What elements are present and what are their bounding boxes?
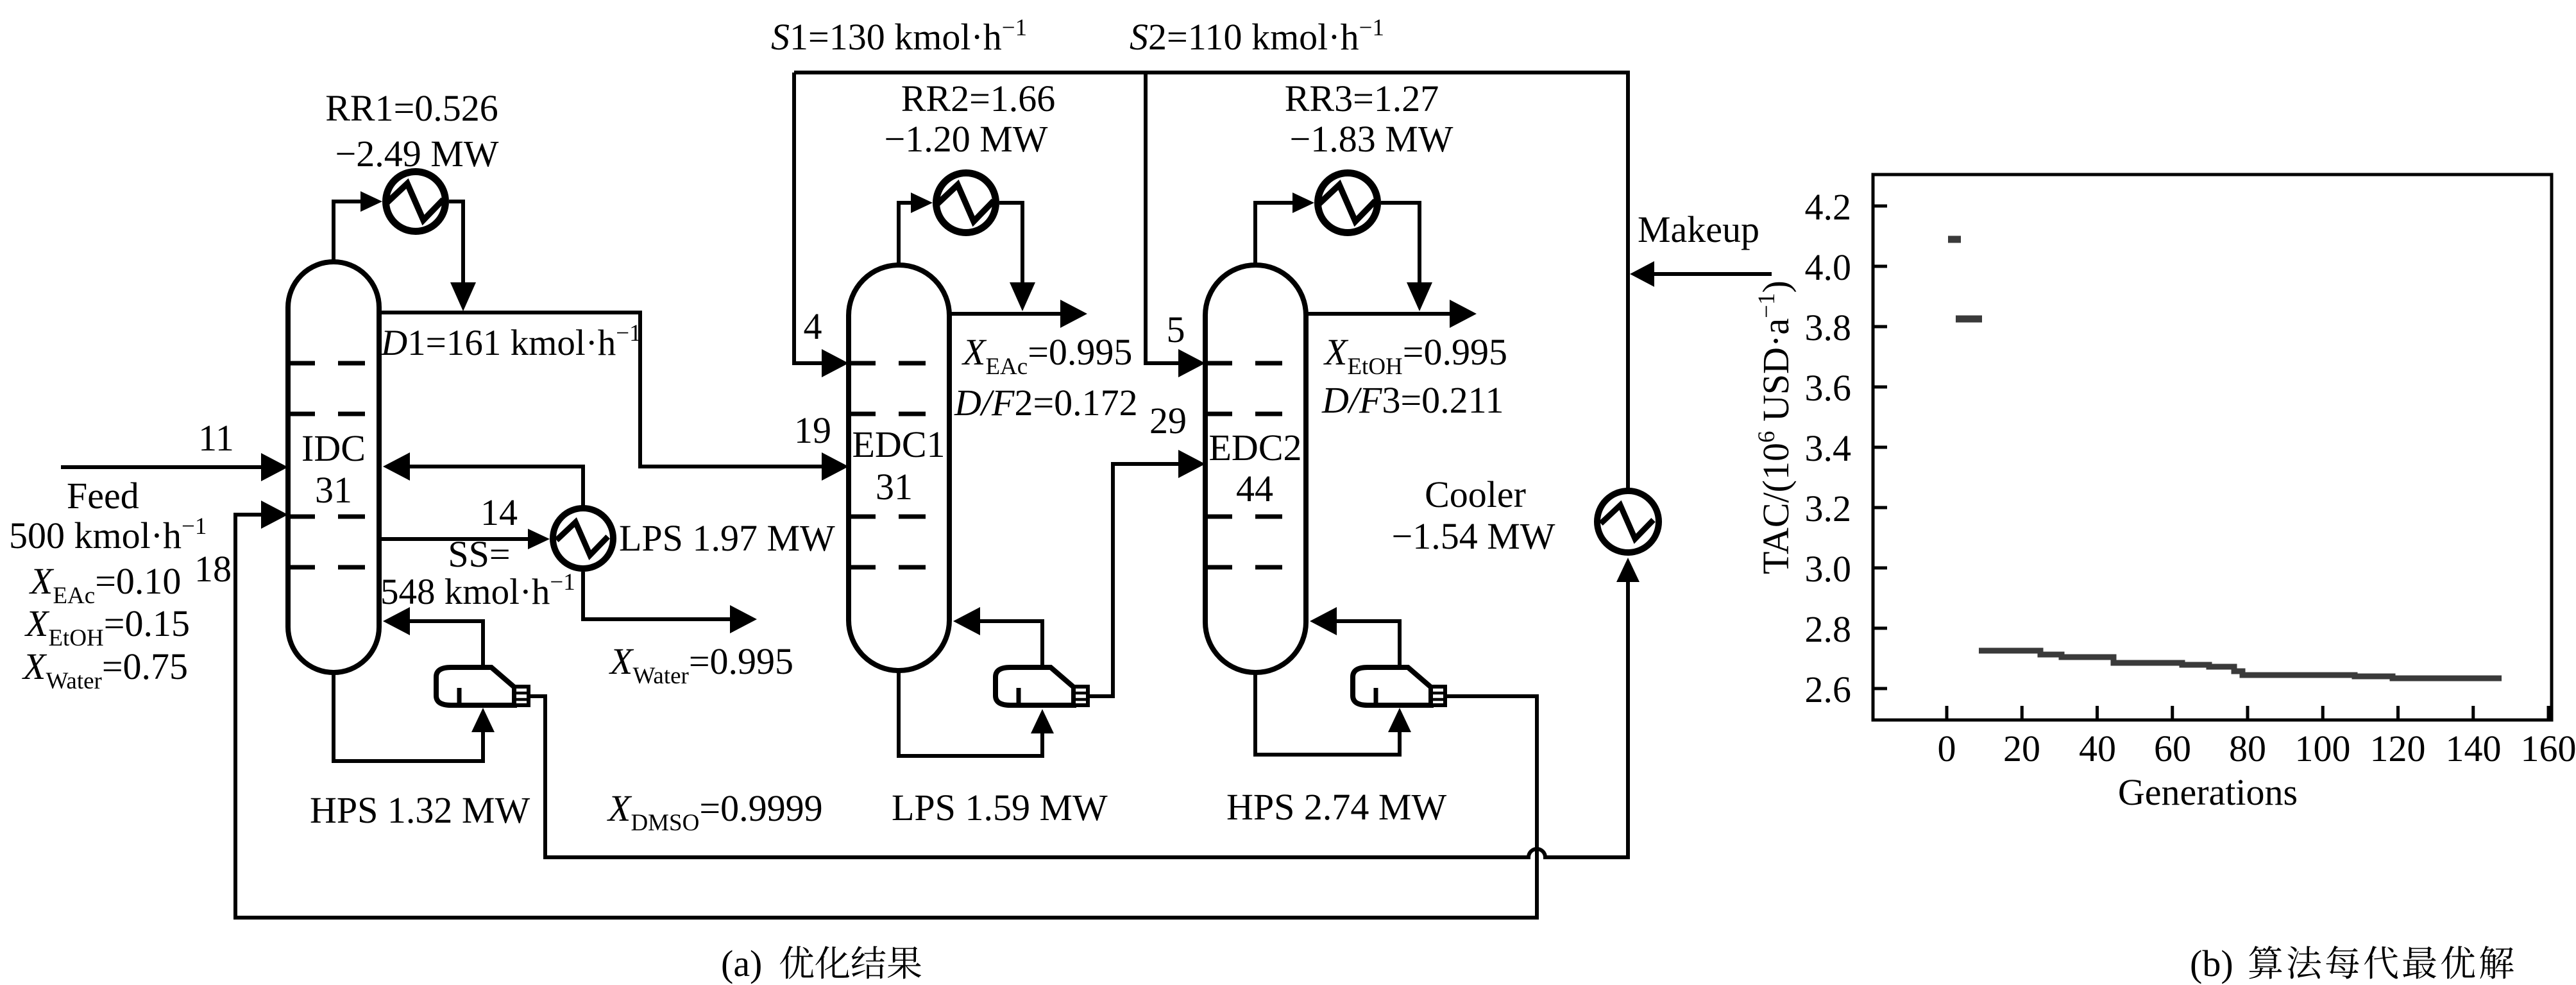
svg-text:100: 100 (2295, 728, 2351, 769)
arrow into condenser 3 (1292, 193, 1314, 213)
svg-text:−1.54 MW: −1.54 MW (1391, 515, 1555, 557)
svg-text:19: 19 (794, 409, 831, 451)
svg-text:31: 31 (876, 466, 913, 508)
wire LPS HX outlet (583, 572, 733, 619)
chart y ticks (1873, 205, 1887, 208)
svg-text:Cooler: Cooler (1425, 474, 1526, 515)
wire reboiler 2 vapor return (978, 621, 1042, 669)
svg-text:120: 120 (2370, 728, 2426, 769)
arrow reflux down 3 (1407, 282, 1432, 311)
arrow into condenser 2 (911, 193, 933, 213)
svg-text:SS=: SS= (448, 533, 510, 575)
wire EDC1 bottoms to EDC2 (1088, 464, 1181, 696)
condenser 2 (936, 173, 996, 233)
wire EDC1 bottoms to reboiler (899, 668, 1042, 756)
svg-text:3.2: 3.2 (1805, 488, 1852, 529)
svg-text:EDC1: EDC1 (852, 424, 945, 465)
svg-text:40: 40 (2079, 728, 2116, 769)
chart best-solution step curve (1979, 651, 2502, 678)
wire condenser 1 outlet (449, 201, 463, 287)
svg-text:20: 20 (2003, 728, 2040, 769)
condenser 3 (1318, 173, 1378, 233)
svg-text:D/F3=0.211: D/F3=0.211 (1321, 379, 1504, 421)
svg-text:LPS 1.97 MW: LPS 1.97 MW (619, 517, 835, 559)
svg-text:60: 60 (2154, 728, 2191, 769)
svg-text:548 kmol·h−1​: 548 kmol·h−1​ (380, 569, 575, 612)
svg-text:0: 0 (1938, 728, 1956, 769)
svg-text:S2=110 kmol·h−1​: S2=110 kmol·h−1​ (1130, 15, 1384, 58)
svg-text:14: 14 (480, 492, 518, 533)
svg-text:3.8: 3.8 (1805, 307, 1852, 348)
svg-text:RR1=0.526: RR1=0.526 (325, 87, 498, 129)
arrow into reboiler 3 (1388, 708, 1411, 732)
wire EDC2 bottoms to reboiler (1255, 670, 1400, 755)
arrow recycle into IDC stage 18 (261, 501, 288, 529)
reboiler 2 (996, 667, 1074, 705)
svg-text:XEAc​=0.10: XEAc​=0.10 (29, 560, 181, 609)
svg-text:LPS 1.59 MW: LPS 1.59 MW (892, 787, 1108, 828)
arrow S1 into EDC1 (822, 349, 849, 377)
svg-text:−1.83 MW: −1.83 MW (1289, 118, 1453, 160)
svg-text:4.0: 4.0 (1805, 246, 1852, 288)
arrow water product (730, 605, 757, 633)
svg-text:HPS 1.32 MW: HPS 1.32 MW (310, 789, 530, 831)
svg-text:Generations: Generations (2118, 771, 2298, 813)
chart data point gen1 (1948, 236, 1961, 243)
svg-text:140: 140 (2446, 728, 2502, 769)
svg-text:5: 5 (1167, 309, 1185, 350)
column IDC trays (288, 361, 379, 366)
wire EDC2 overhead to condenser (1255, 203, 1292, 268)
arrow feed into IDC stage 11 (261, 453, 288, 481)
svg-text:11: 11 (198, 417, 234, 459)
column EDC1 (849, 265, 949, 671)
svg-text:31: 31 (315, 469, 352, 511)
svg-text:D/F2=0.172: D/F2=0.172 (954, 382, 1138, 424)
wire S2 feed (1146, 73, 1181, 363)
wire S1 feed (794, 73, 826, 363)
wire fresh feed (61, 465, 264, 469)
svg-text:RR2=1.66: RR2=1.66 (901, 78, 1056, 119)
column EDC2 (1205, 265, 1306, 672)
svg-text:TAC/(106​ USD·a−1​): TAC/(106​ USD·a−1​) (1754, 280, 1797, 574)
wire top recycle line (794, 73, 1628, 491)
arrow into cooler (1616, 558, 1640, 582)
svg-text:D1=161 kmol·h−1​: D1=161 kmol·h−1​ (380, 320, 641, 363)
arrow into condenser 1 (360, 191, 382, 212)
svg-text:(a): (a) (721, 943, 762, 984)
wire IDC overhead to condenser (334, 201, 362, 264)
svg-text:Feed: Feed (67, 475, 139, 517)
wire reboiler 3 vapor return (1334, 621, 1400, 669)
wire EDC1 distillate (949, 312, 1063, 316)
chart x ticks (1945, 706, 1949, 720)
arrow D1 into EDC1 feed 19 (822, 452, 849, 481)
wire condenser 3 outlet (1381, 203, 1419, 287)
wire EDC1 overhead to condenser (899, 203, 912, 268)
arrow into EDC2 stage 29 (1178, 450, 1205, 478)
column IDC (288, 262, 379, 672)
svg-text:3.6: 3.6 (1805, 367, 1852, 409)
arrow vapor into EDC1 (953, 607, 980, 635)
svg-text:RR3=1.27: RR3=1.27 (1285, 78, 1439, 119)
svg-text:−1.20 MW: −1.20 MW (884, 118, 1047, 160)
svg-text:(b): (b) (2190, 943, 2233, 984)
arrow vapor into EDC2 (1310, 607, 1337, 635)
svg-text:18: 18 (194, 548, 232, 590)
arrow makeup into recycle (1630, 261, 1654, 287)
arrow reflux down 1 (450, 282, 476, 311)
condenser 1 (386, 172, 446, 232)
svg-text:4.2: 4.2 (1805, 186, 1852, 228)
svg-text:2.6: 2.6 (1805, 669, 1852, 710)
svg-text:EDC2: EDC2 (1209, 427, 1302, 468)
svg-text:29: 29 (1149, 400, 1187, 441)
cooler (1597, 491, 1659, 552)
svg-text:4: 4 (804, 305, 822, 347)
arrow vapor into IDC (383, 607, 410, 635)
wire makeup (1654, 272, 1772, 276)
wire IDC bottoms solvent recycle to cooler (527, 578, 1628, 857)
arrow return into IDC (383, 452, 410, 481)
arrow S2 into EDC2 (1178, 349, 1205, 377)
reboiler 3 (1353, 667, 1431, 705)
LPS heat exchanger (553, 508, 613, 569)
chart data point gen4 (1956, 316, 1982, 323)
arrow reflux down 2 (1010, 282, 1035, 311)
column EDC2 trays (1205, 361, 1306, 366)
svg-text:3.4: 3.4 (1805, 427, 1852, 469)
column EDC1 trays (849, 361, 949, 366)
svg-text:160: 160 (2521, 728, 2576, 769)
wire LPS HX return to IDC (407, 467, 583, 506)
wire condenser 2 outlet (999, 203, 1022, 287)
svg-text:500 kmol·h−1​: 500 kmol·h−1​ (9, 513, 207, 556)
wire IDC side draw (379, 537, 528, 541)
svg-text:3.0: 3.0 (1805, 548, 1852, 590)
arrow EDC2 product (1450, 300, 1477, 328)
chart plot box (1873, 175, 2552, 720)
svg-text:2.8: 2.8 (1805, 608, 1852, 650)
svg-text:80: 80 (2229, 728, 2266, 769)
wire D1 distillate to EDC1 (379, 313, 824, 467)
arrow EDC1 product (1060, 300, 1087, 328)
arrow into reboiler 2 (1031, 709, 1054, 733)
svg-text:44: 44 (1236, 468, 1273, 510)
svg-text:S1=130 kmol·h−1​: S1=130 kmol·h−1​ (771, 15, 1027, 58)
arrow into reboiler 1 (471, 708, 495, 732)
wire EDC2 distillate (1306, 312, 1452, 316)
wire EDC2 bottoms recycle to IDC stage 18 (235, 515, 1537, 918)
arrow side draw into LPS HX (528, 529, 550, 549)
reboiler 1 (436, 667, 514, 705)
svg-text:HPS 2.74 MW: HPS 2.74 MW (1226, 786, 1446, 828)
svg-text:IDC: IDC (301, 427, 366, 469)
wire IDC bottoms to reboiler (334, 670, 483, 761)
svg-text:−2.49 MW: −2.49 MW (335, 133, 498, 175)
wire reboiler 1 vapor return (407, 621, 483, 669)
svg-text:Makeup: Makeup (1638, 209, 1759, 250)
